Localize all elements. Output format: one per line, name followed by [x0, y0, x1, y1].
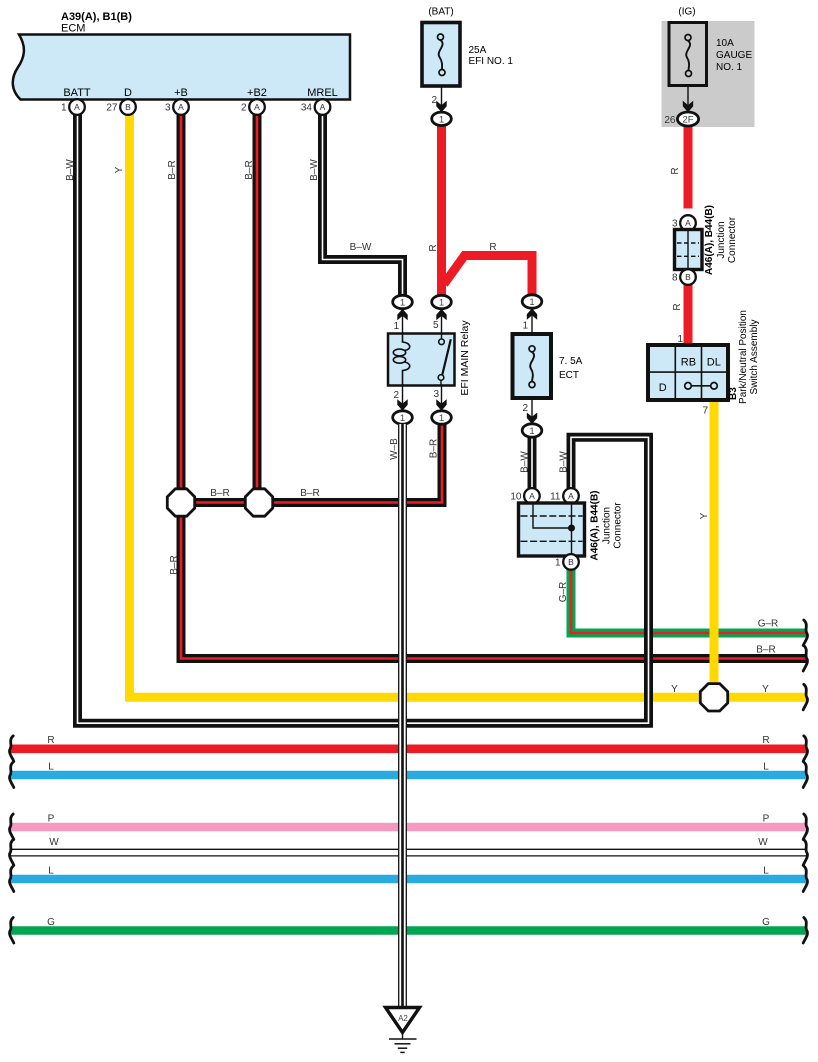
svg-text:GAUGE: GAUGE — [716, 50, 752, 61]
pin line — [687, 87, 689, 112]
wire W-B from relay pin2 to ground A2 (drawn on top) — [399, 424, 407, 1008]
svg-text:R: R — [489, 242, 496, 253]
svg-text:Switch Assembly: Switch Assembly — [749, 319, 760, 394]
svg-text:ECT: ECT — [559, 370, 579, 381]
svg-text:7. 5A: 7. 5A — [559, 356, 583, 367]
svg-text:(BAT): (BAT) — [428, 7, 453, 18]
svg-text:B–R: B–R — [429, 439, 440, 458]
svg-text:5: 5 — [433, 320, 439, 331]
fuse 7.5A ECT — [513, 295, 583, 437]
svg-text:25A: 25A — [469, 45, 487, 56]
svg-text:Connector: Connector — [613, 502, 624, 549]
svg-text:W: W — [758, 837, 768, 848]
svg-text:3: 3 — [433, 389, 439, 400]
svg-text:W: W — [49, 837, 59, 848]
svg-text:2: 2 — [241, 103, 247, 114]
svg-text:A: A — [568, 491, 574, 501]
IG gray zone — [662, 21, 755, 127]
ECM pin 34(A) MREL connector — [301, 99, 330, 115]
svg-text:B–R: B–R — [756, 644, 775, 655]
svg-text:1: 1 — [400, 298, 405, 309]
svg-text:B–W: B–W — [309, 159, 320, 181]
octagon node junction Y — [700, 684, 727, 711]
bus wire L2 — [9, 865, 807, 891]
svg-text:27: 27 — [106, 103, 118, 114]
svg-text:D: D — [659, 382, 667, 394]
svg-text:1: 1 — [439, 115, 444, 126]
svg-text:A2: A2 — [398, 1014, 408, 1023]
svg-text:R: R — [670, 167, 681, 174]
svg-text:B–R: B–R — [169, 555, 180, 574]
svg-text:1: 1 — [400, 413, 405, 424]
octagon node junction +B/+B2 left — [167, 489, 194, 516]
svg-text:A46(A), B44(B): A46(A), B44(B) — [704, 205, 715, 275]
svg-text:MREL: MREL — [307, 87, 338, 99]
svg-text:1: 1 — [393, 321, 399, 332]
wire B-R from octagon node down then right to page edge — [169, 503, 808, 672]
ground A2 — [386, 1008, 420, 1053]
svg-text:D: D — [124, 87, 132, 99]
svg-text:A: A — [74, 102, 80, 112]
svg-text:2F: 2F — [682, 115, 693, 126]
svg-text:A: A — [685, 218, 691, 228]
svg-text:G–R: G–R — [758, 619, 779, 630]
svg-text:8: 8 — [672, 273, 678, 284]
svg-text:L: L — [48, 865, 54, 876]
svg-text:B–W: B–W — [559, 451, 570, 473]
svg-text:G–R: G–R — [558, 582, 569, 603]
svg-text:L: L — [763, 761, 769, 772]
ECM pin 2(A) +B2 connector — [241, 99, 265, 115]
wire B-R net: ECM +B and +B2 down to octagon nodes, across to relay pin3 drop — [167, 114, 442, 503]
bus wire W (white, outlined) — [9, 837, 807, 865]
svg-text:A: A — [320, 102, 326, 112]
svg-text:Y: Y — [114, 166, 125, 173]
svg-text:A46(A), B44(B): A46(A), B44(B) — [590, 490, 601, 560]
svg-text:+B2: +B2 — [247, 87, 267, 99]
EFI main relay U — [388, 295, 471, 460]
wire Y net: ECM D pin down, across to page edge; park/neutral pin7 drop — [114, 114, 808, 710]
park/neutral position switch assembly B3 — [648, 310, 760, 416]
svg-text:A39(A), B1(B): A39(A), B1(B) — [61, 11, 132, 23]
wire R net: BAT fuse down to relay pin5, branch to ECT fuse — [428, 125, 532, 296]
svg-text:1: 1 — [439, 413, 444, 424]
ECM box — [13, 11, 350, 100]
svg-text:Park/Neutral Position: Park/Neutral Position — [738, 310, 749, 404]
ECM pin 3(A) +B connector — [165, 99, 189, 115]
wire B-W: ECT fuse to junction 10(A) — [520, 437, 533, 488]
svg-text:R: R — [47, 735, 54, 746]
junction connector A46(A),B44(B) middle — [510, 488, 623, 570]
wire G-R from junction B down then right to page edge — [558, 568, 808, 645]
svg-text:L: L — [48, 761, 54, 772]
ECM pin 27(B) D connector — [106, 99, 135, 115]
svg-text:EFI MAIN Relay: EFI MAIN Relay — [459, 320, 471, 396]
wire R: junction connector B to park/neutral switch pin 1 — [672, 285, 688, 345]
svg-text:P: P — [48, 813, 55, 824]
svg-text:ECM: ECM — [61, 23, 85, 35]
svg-text:1: 1 — [522, 321, 528, 332]
svg-text:(IG): (IG) — [678, 7, 695, 18]
svg-text:Junction: Junction — [716, 221, 727, 258]
svg-text:B: B — [568, 557, 574, 567]
svg-text:B–W: B–W — [65, 159, 76, 181]
svg-text:A: A — [529, 491, 535, 501]
svg-text:B: B — [125, 102, 131, 112]
svg-text:B–R: B–R — [244, 160, 255, 179]
switch — [441, 334, 443, 339]
svg-text:G: G — [47, 917, 55, 928]
svg-text:B–R: B–R — [210, 488, 229, 499]
svg-text:2: 2 — [393, 390, 399, 401]
svg-text:A: A — [254, 102, 260, 112]
svg-text:1: 1 — [61, 103, 67, 114]
svg-text:Y: Y — [762, 684, 769, 695]
node 1 oval above — [522, 295, 542, 308]
svg-text:RB: RB — [681, 357, 696, 369]
svg-text:EFI NO. 1: EFI NO. 1 — [469, 56, 514, 67]
bus wire G — [9, 917, 807, 943]
svg-text:Connector: Connector — [727, 216, 738, 263]
svg-text:BATT: BATT — [63, 87, 91, 99]
svg-text:R: R — [428, 244, 439, 251]
bus wire L — [9, 761, 807, 787]
svg-text:B–W: B–W — [520, 451, 531, 473]
svg-text:34: 34 — [301, 103, 313, 114]
svg-text:Y: Y — [671, 684, 678, 695]
ECM pin 1(A) BATT connector — [61, 99, 85, 115]
pin 2 — [531, 398, 533, 423]
pin 2 of fuse — [441, 88, 443, 112]
wire B-W from ECM MREL to relay pin 1 — [309, 114, 403, 296]
octagon node junction +B2 — [245, 489, 272, 516]
svg-text:1: 1 — [555, 558, 561, 569]
svg-text:+B: +B — [174, 87, 188, 99]
svg-text:B–R: B–R — [167, 160, 178, 179]
bus wire R — [9, 735, 807, 761]
svg-text:G: G — [762, 917, 770, 928]
junction connector A46(A),B44(B) right — [672, 205, 738, 285]
svg-text:B–R: B–R — [300, 488, 319, 499]
svg-text:L: L — [763, 865, 769, 876]
svg-text:P: P — [763, 813, 770, 824]
svg-text:1: 1 — [439, 298, 444, 309]
svg-text:10A: 10A — [716, 38, 734, 49]
svg-text:R: R — [672, 303, 683, 310]
node 1 oval — [432, 112, 452, 125]
bus wire P — [9, 813, 807, 839]
svg-text:3: 3 — [165, 103, 171, 114]
coil — [403, 334, 410, 351]
svg-text:B–W: B–W — [350, 242, 372, 253]
fuse 10A GAUGE NO.1 (IG) — [664, 7, 752, 127]
svg-text:1: 1 — [529, 426, 534, 437]
svg-text:7: 7 — [702, 406, 708, 417]
svg-text:B: B — [685, 272, 691, 282]
svg-text:26: 26 — [664, 115, 676, 126]
wire R: IG fuse to junction connector A — [670, 126, 688, 209]
svg-text:10: 10 — [510, 492, 522, 503]
fuse 25A EFI NO.1 (BAT) — [422, 7, 513, 126]
svg-text:1: 1 — [529, 297, 534, 308]
svg-text:R: R — [762, 735, 769, 746]
svg-text:DL: DL — [707, 357, 721, 369]
svg-text:NO. 1: NO. 1 — [716, 62, 743, 73]
svg-text:2: 2 — [522, 403, 528, 414]
svg-text:11: 11 — [550, 492, 561, 503]
svg-text:Y: Y — [699, 512, 710, 519]
wire B-W net: ECM BATT down, across bottom, up right side to junction 11(A) — [65, 114, 649, 723]
svg-text:Junction: Junction — [602, 507, 613, 544]
svg-text:A: A — [178, 102, 184, 112]
